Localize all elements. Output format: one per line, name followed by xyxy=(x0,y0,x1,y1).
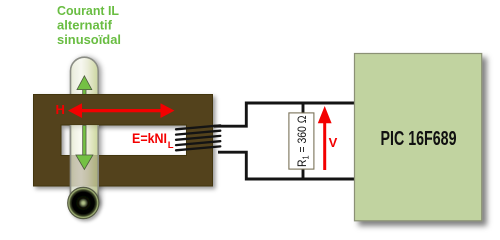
PIC 16F689 microcontroller U1 xyxy=(355,54,482,221)
svg-text:PIC 16F689: PIC 16F689 xyxy=(381,128,457,150)
label E=kNIL xyxy=(132,131,174,151)
conductor tube (lower part, in front of core) xyxy=(71,57,99,204)
svg-text:V: V xyxy=(329,135,338,150)
resistor R1 = 360 ohm xyxy=(289,113,314,169)
green current arrow (double-headed, upper) xyxy=(76,76,93,170)
svg-text:sinusoïdal: sinusoïdal xyxy=(57,33,121,47)
svg-text:alternatif: alternatif xyxy=(57,19,113,33)
wire: coil bottom lead to bottom rail to PIC xyxy=(218,152,355,179)
V arrow xyxy=(318,106,332,170)
toroidal core xyxy=(34,95,213,187)
svg-text:E=kNI: E=kNI xyxy=(132,131,167,146)
label: Courant IL alternatif sinusoidal xyxy=(57,4,121,47)
wire: resistor bottom stub xyxy=(302,169,305,180)
conductor tube end cross-section xyxy=(68,187,99,218)
H field arrow xyxy=(68,103,175,118)
coil winding (secondary) xyxy=(176,125,220,150)
svg-text:L: L xyxy=(168,140,174,151)
conductor tube (primary wire, upper part) xyxy=(71,57,99,204)
svg-text:H: H xyxy=(56,102,65,117)
wire: resistor top stub xyxy=(302,103,305,114)
green current arrow (lower part, in front of core) xyxy=(76,126,93,170)
svg-text:Courant IL: Courant IL xyxy=(57,4,119,18)
wire: coil top lead to top rail to PIC xyxy=(214,103,356,126)
